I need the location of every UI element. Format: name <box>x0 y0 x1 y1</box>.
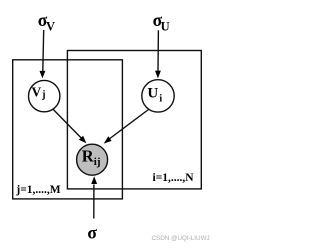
svg-text:CSDN @UQI-LIUWJ: CSDN @UQI-LIUWJ <box>152 235 210 242</box>
svg-text:U: U <box>161 19 170 33</box>
svg-text:σ: σ <box>87 223 97 243</box>
svg-text:V: V <box>46 19 55 33</box>
svg-text:j=1,....,M: j=1,....,M <box>15 184 60 196</box>
svg-text:V: V <box>32 85 42 100</box>
svg-text:j: j <box>41 89 45 100</box>
svg-text:U: U <box>147 86 158 102</box>
svg-text:i: i <box>159 94 162 105</box>
svg-text:i=1,....,N: i=1,....,N <box>153 172 195 184</box>
svg-text:ij: ij <box>94 156 101 168</box>
